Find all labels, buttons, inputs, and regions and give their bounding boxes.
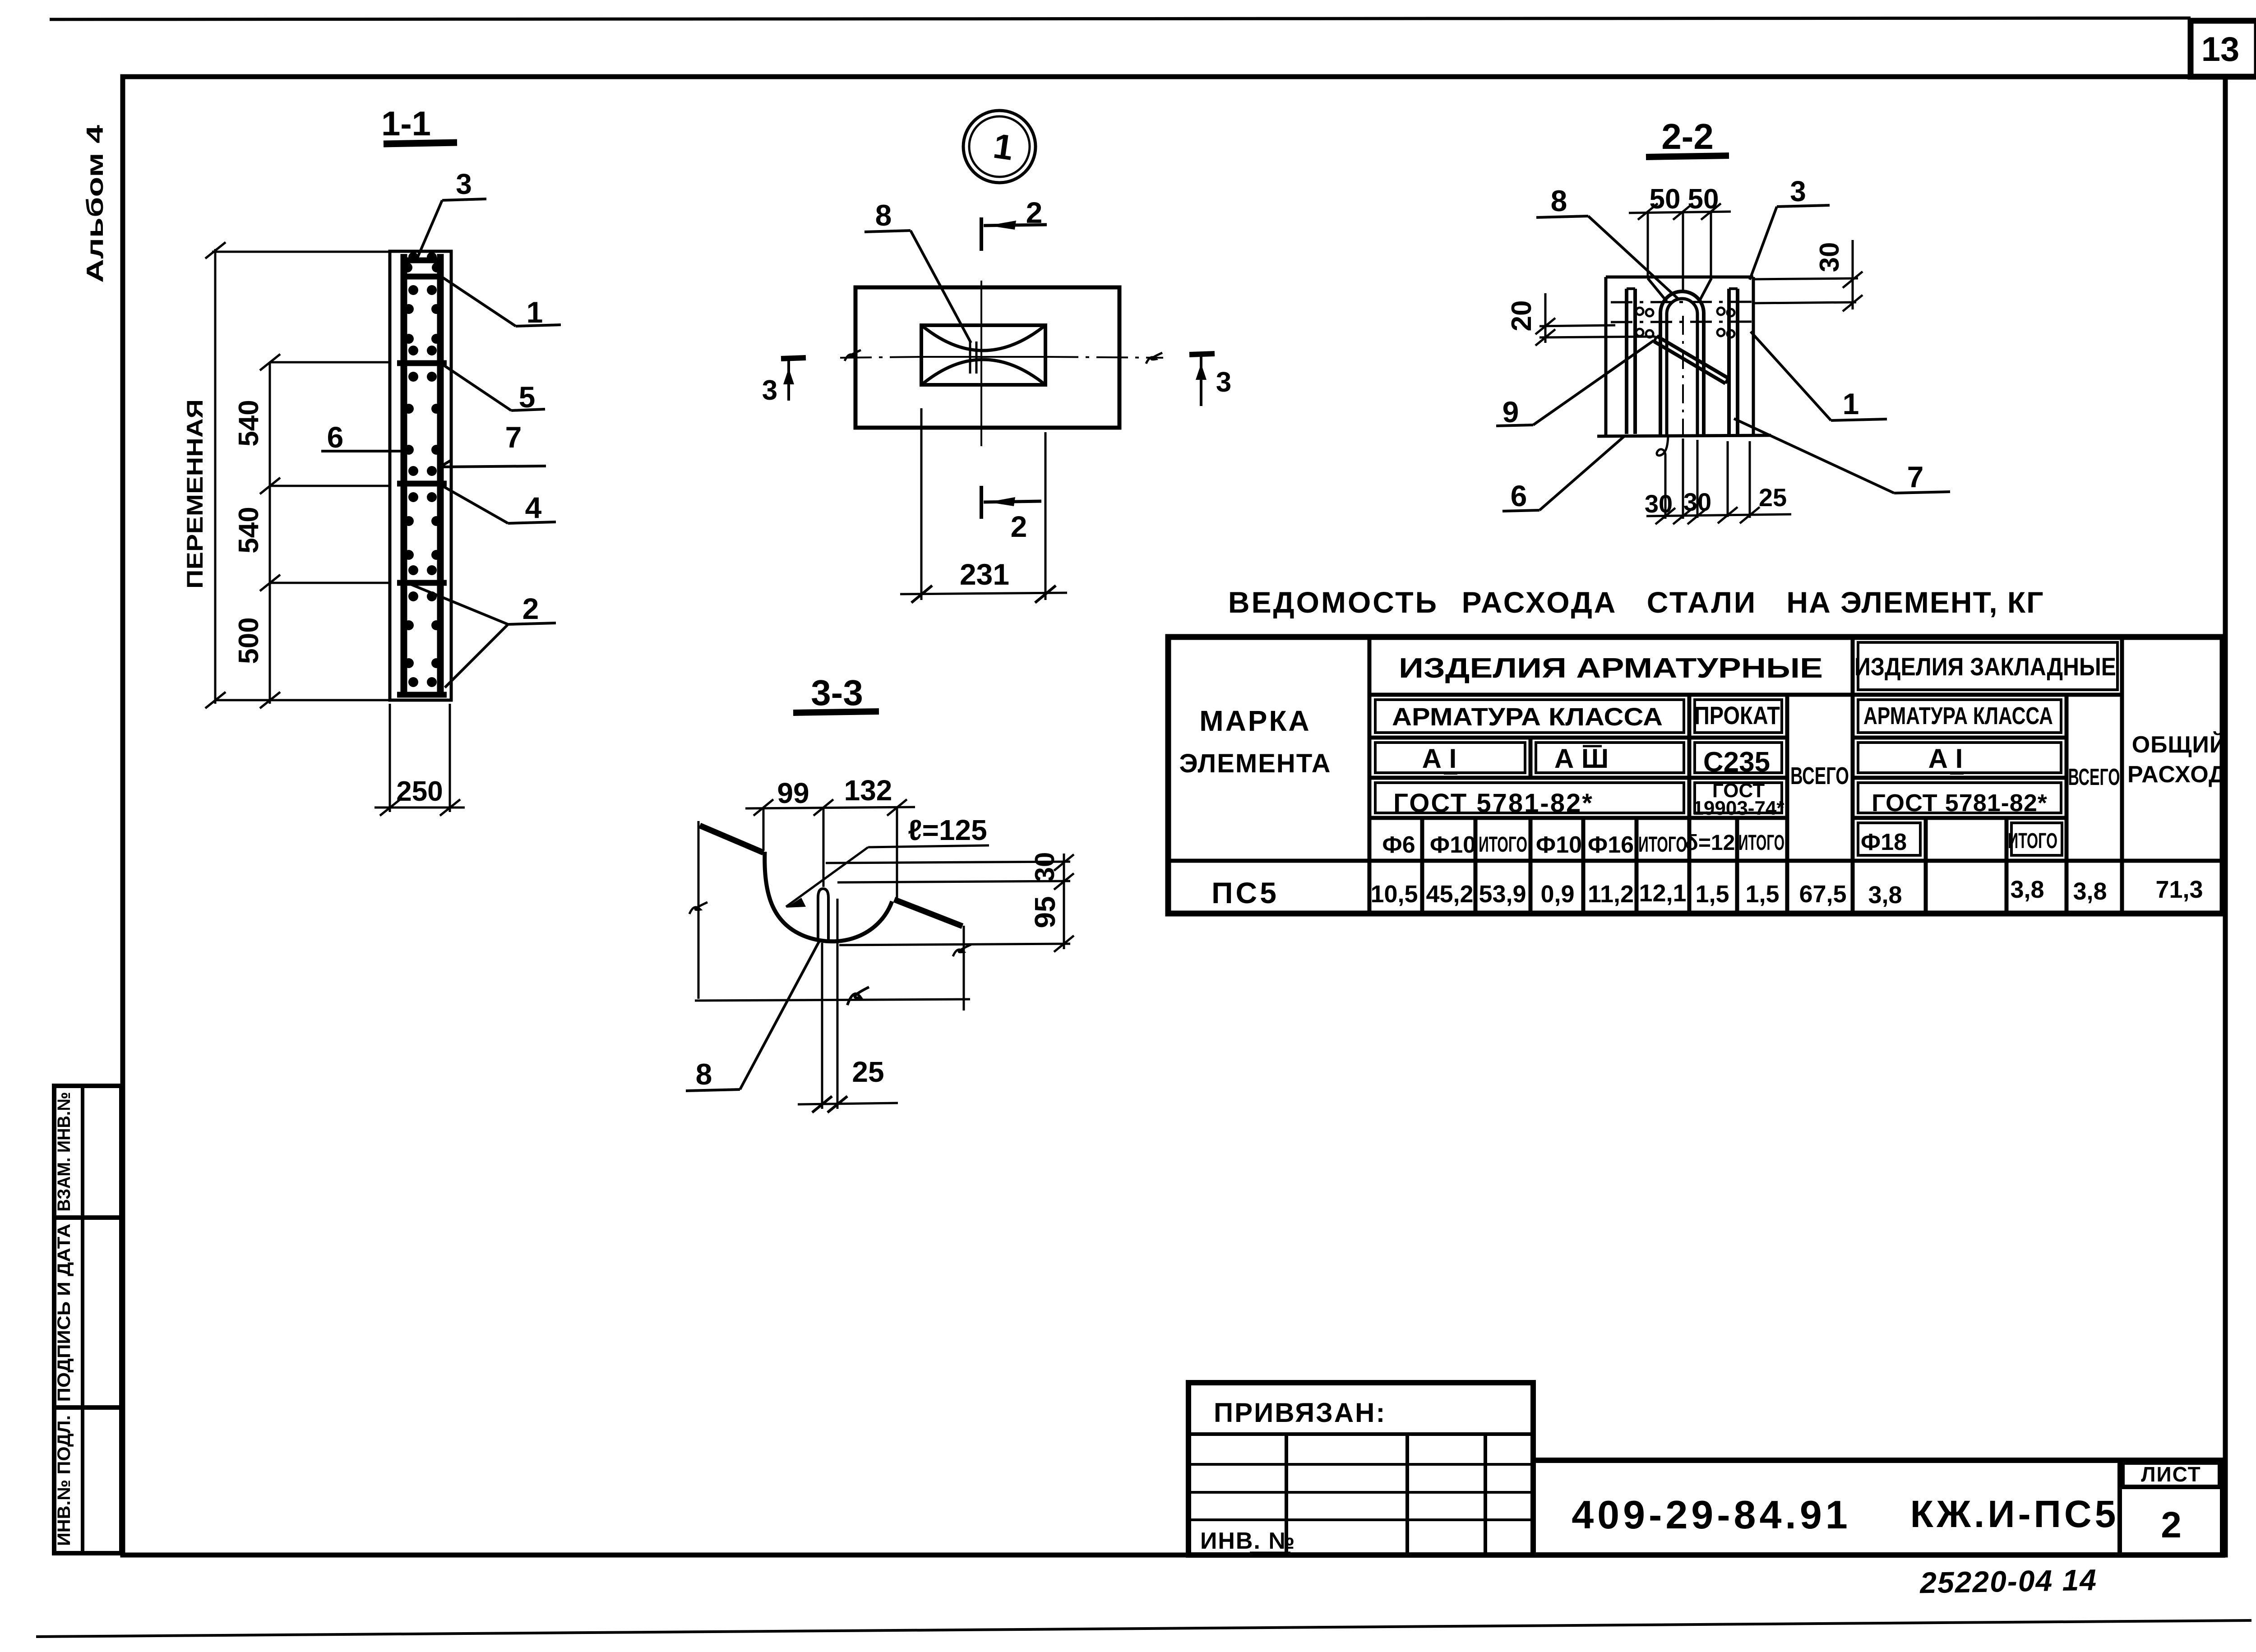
keyway pocket (bowtie) [921, 325, 1045, 385]
svg-text:ГОСТ 5781-82*: ГОСТ 5781-82* [1393, 789, 1594, 818]
svg-text:Ф10: Ф10 [1536, 832, 1582, 858]
privyazan block [1188, 1383, 1533, 1555]
right dims 30 95 [826, 854, 1074, 952]
svg-text:ОБЩИЙ: ОБЩИЙ [2132, 731, 2227, 758]
svg-text:3: 3 [1216, 367, 1231, 398]
svg-text:АРМАТУРА КЛАССА: АРМАТУРА КЛАССА [1392, 702, 1663, 731]
cut boundary right [963, 926, 965, 1011]
svg-text:ПС5: ПС5 [1211, 876, 1279, 909]
svg-text:ИТОГО: ИТОГО [1479, 833, 1527, 857]
mesh bars dashed [1611, 302, 1752, 322]
svg-text:99: 99 [777, 777, 809, 809]
block outline 2-2 [1597, 277, 1771, 436]
svg-text:Ф6: Ф6 [1382, 832, 1415, 858]
vertical centreline [980, 281, 982, 446]
svg-text:25220-04 14: 25220-04 14 [1919, 1563, 2098, 1600]
groove profile [700, 826, 763, 853]
section mark 2 bottom [981, 486, 1041, 519]
svg-text:6: 6 [327, 420, 344, 454]
svg-text:1,5: 1,5 [1745, 881, 1779, 908]
svg-text:ПЕРЕМЕННАЯ: ПЕРЕМЕННАЯ [182, 399, 208, 589]
overall dim line (переменная) [205, 242, 391, 708]
svg-text:20: 20 [1506, 300, 1537, 332]
svg-text:δ=12: δ=12 [1685, 831, 1735, 855]
svg-text:4: 4 [525, 491, 542, 524]
svg-text:7: 7 [505, 420, 522, 454]
rebar dots [402, 252, 442, 687]
svg-text:АРМАТУРА КЛАССА: АРМАТУРА КЛАССА [1863, 702, 2053, 729]
embedded slot item 8 [818, 889, 828, 941]
cut boundary left [698, 821, 700, 999]
dim 20 left [1535, 293, 1655, 346]
svg-text:Ф10: Ф10 [1430, 832, 1476, 858]
svg-text:0,9: 0,9 [1540, 881, 1574, 908]
svg-text:2: 2 [522, 592, 539, 625]
svg-text:С235: С235 [1703, 747, 1770, 778]
svg-text:Ф18: Ф18 [1861, 829, 1907, 855]
section mark 2 top [981, 217, 1047, 251]
svg-text:Альбом 4: Альбом 4 [82, 125, 108, 283]
svg-text:7: 7 [1907, 460, 1924, 494]
svg-text:ВЕДОМОСТЬ: ВЕДОМОСТЬ [1228, 586, 1438, 619]
svg-text:9: 9 [1502, 395, 1519, 429]
svg-text:РАСХОД: РАСХОД [2127, 761, 2226, 788]
svg-text:95: 95 [1029, 896, 1061, 928]
bottom dim 25 [798, 1103, 898, 1104]
anchor loop item 8 [1660, 291, 1704, 436]
svg-text:3-3: 3-3 [811, 673, 863, 713]
svg-text:ПРИВЯЗАН:: ПРИВЯЗАН: [1214, 1398, 1386, 1428]
svg-text:ВЗАМ. ИНВ.№: ВЗАМ. ИНВ.№ [54, 1092, 74, 1212]
svg-text:МАРКА: МАРКА [1199, 705, 1311, 737]
placeholder groups [182, 105, 561, 816]
svg-text:3: 3 [456, 168, 472, 200]
svg-text:2: 2 [2161, 1504, 2182, 1546]
svg-text:ЛИСТ: ЛИСТ [2141, 1463, 2201, 1486]
svg-text:30: 30 [1814, 242, 1845, 272]
svg-text:ИНВ. №: ИНВ. № [1200, 1528, 1295, 1554]
svg-text:53,9: 53,9 [1479, 881, 1526, 908]
table grid [1168, 637, 2223, 914]
svg-text:А І: А І [1928, 743, 1963, 774]
svg-text:РАСХОДА: РАСХОДА [1462, 586, 1618, 619]
svg-text:30: 30 [1645, 489, 1673, 518]
cut boundary bottom [695, 999, 970, 1001]
svg-text:2: 2 [1026, 196, 1043, 229]
bottom dims 30 30 25 [1646, 440, 1791, 524]
main title bar [1533, 1460, 2223, 1555]
svg-text:13: 13 [2201, 30, 2240, 69]
svg-text:1,5: 1,5 [1695, 881, 1729, 908]
svg-text:25: 25 [852, 1056, 884, 1088]
svg-text:50: 50 [1688, 184, 1719, 215]
dim 30 right [1753, 240, 1863, 311]
plan outline [855, 287, 1119, 428]
svg-text:132: 132 [844, 774, 892, 807]
svg-text:2: 2 [1011, 510, 1027, 543]
svg-text:540: 540 [233, 400, 264, 446]
bottom dim 250 [374, 704, 465, 816]
svg-text:8: 8 [875, 198, 892, 232]
svg-text:А І: А І [1422, 743, 1457, 774]
sheet cell [2117, 1460, 2122, 1555]
svg-text:ПОДПИСЬ И ДАТА: ПОДПИСЬ И ДАТА [54, 1224, 74, 1402]
rebar cage vertical bars [401, 254, 407, 697]
svg-text:67,5: 67,5 [1799, 881, 1846, 908]
svg-text:2-2: 2-2 [1661, 116, 1714, 157]
svg-text:50: 50 [1650, 184, 1681, 215]
svg-text:11,2: 11,2 [1588, 881, 1634, 908]
svg-text:ВСЕГО: ВСЕГО [1790, 762, 1849, 789]
svg-text:ПРОКАТ: ПРОКАТ [1694, 701, 1780, 729]
svg-text:19903-74*: 19903-74* [1692, 797, 1784, 819]
svg-text:3: 3 [762, 375, 777, 406]
svg-text:500: 500 [233, 617, 264, 664]
svg-text:НА ЭЛЕМЕНТ, КГ: НА ЭЛЕМЕНТ, КГ [1786, 586, 2044, 619]
top dim 99 132 [745, 799, 915, 898]
embedded plate left (item 3) [1625, 289, 1628, 434]
svg-text:Ф16: Ф16 [1588, 832, 1634, 858]
svg-text:30: 30 [1030, 852, 1060, 882]
svg-text:3: 3 [1790, 175, 1806, 208]
svg-text:ГОСТ 5781-82*: ГОСТ 5781-82* [1872, 789, 2048, 817]
svg-text:ИТОГО: ИТОГО [2008, 829, 2057, 853]
svg-text:1: 1 [1843, 387, 1859, 420]
vertical extension lines to bottom dim [821, 943, 823, 1109]
svg-text:ИТОГО: ИТОГО [1738, 831, 1784, 855]
rebar cage horizontal bars [401, 258, 444, 263]
svg-text:3,8: 3,8 [1868, 881, 1902, 909]
dim 50 50 [1629, 203, 1731, 519]
bar end hook [1657, 437, 1668, 459]
svg-text:12,1: 12,1 [1639, 880, 1686, 907]
dim 231 [900, 593, 1067, 594]
svg-text:ИТОГО: ИТОГО [1638, 833, 1687, 857]
svg-text:ℓ=125: ℓ=125 [908, 814, 987, 846]
segment dim line 540/540/500 [215, 354, 391, 708]
header cell inner boxes [1375, 642, 2117, 855]
svg-text:1: 1 [527, 295, 543, 329]
svg-text:25: 25 [1759, 483, 1787, 512]
svg-text:ИЗДЕЛИЯ ЗАКЛАДНЫЕ: ИЗДЕЛИЯ ЗАКЛАДНЫЕ [1854, 652, 2116, 681]
horizontal centreline [840, 350, 1163, 364]
svg-text:8: 8 [696, 1057, 712, 1091]
side stamp column [54, 1086, 121, 1553]
slot in keyway [969, 341, 971, 374]
svg-text:71,3: 71,3 [2155, 876, 2203, 903]
extension lines for 231 [920, 408, 923, 600]
panel outline 1-1 [390, 251, 451, 700]
svg-text:30: 30 [1683, 488, 1711, 516]
node mark circled 1 [963, 111, 1036, 183]
svg-text:ИЗДЕЛИЯ АРМАТУРНЫЕ: ИЗДЕЛИЯ АРМАТУРНЫЕ [1399, 653, 1823, 684]
svg-text:ИНВ.№ ПОДЛ.: ИНВ.№ ПОДЛ. [54, 1415, 74, 1546]
svg-text:А Ш: А Ш [1554, 743, 1609, 774]
svg-text:ВСЕГО: ВСЕГО [2068, 764, 2120, 790]
svg-text:409-29-84.91: 409-29-84.91 [1572, 1492, 1851, 1537]
sheet number box 13 [2191, 21, 2256, 77]
svg-text:8: 8 [1551, 184, 1567, 217]
svg-text:ЭЛЕМЕНТА: ЭЛЕМЕНТА [1179, 749, 1331, 778]
svg-text:45,2: 45,2 [1426, 881, 1473, 908]
svg-text:250: 250 [396, 776, 443, 807]
svg-text:КЖ.И-ПС5: КЖ.И-ПС5 [1910, 1493, 2119, 1535]
svg-text:6: 6 [1511, 479, 1527, 512]
svg-text:3,8: 3,8 [2073, 878, 2107, 905]
inclined bar item 9 [1657, 336, 1728, 378]
section mark 3 left [781, 358, 806, 401]
section mark 3 right [1189, 354, 1215, 406]
svg-text:540: 540 [233, 507, 264, 553]
svg-text:3,8: 3,8 [2010, 876, 2044, 903]
svg-text:1-1: 1-1 [381, 105, 431, 143]
svg-text:231: 231 [960, 558, 1009, 591]
embedded plate right (item 3) [1727, 289, 1731, 434]
svg-text:СТАЛИ: СТАЛИ [1647, 586, 1757, 619]
svg-text:10,5: 10,5 [1370, 881, 1418, 908]
chamfer lines at loop [1648, 278, 1667, 301]
